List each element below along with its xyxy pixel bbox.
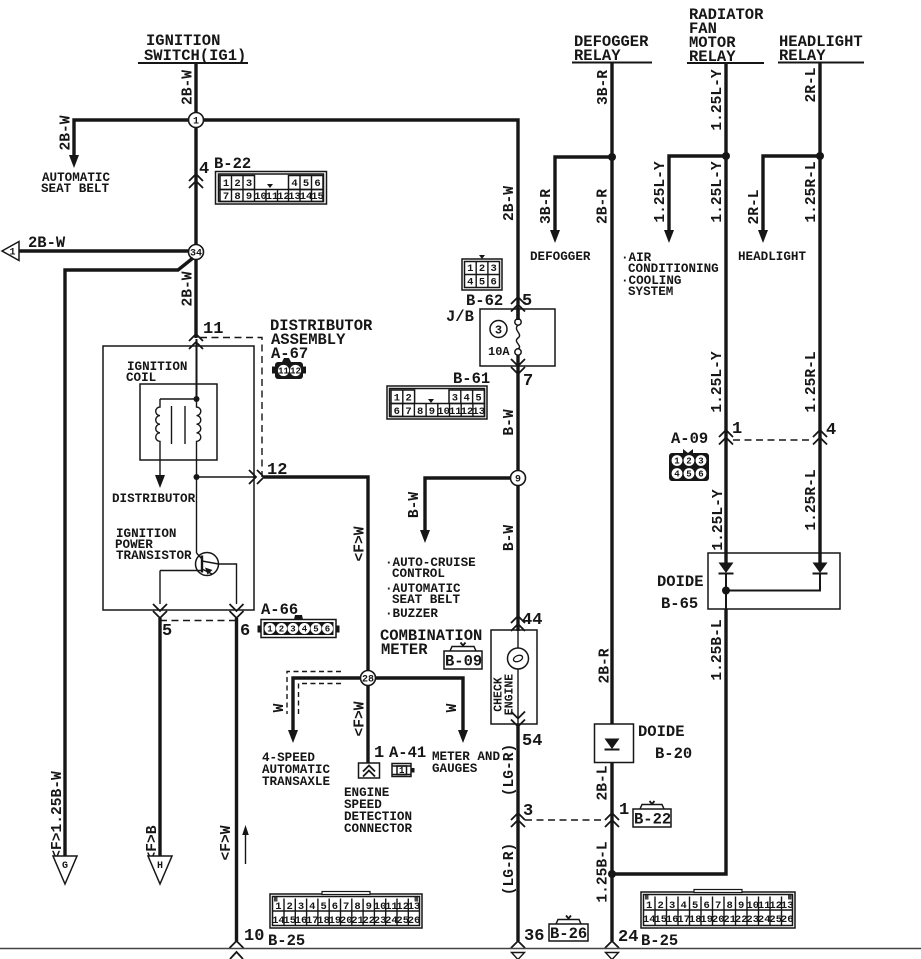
text IGNITION POWER TRANSISTOR — [115, 527, 192, 563]
engine speed detection connector terminal — [359, 763, 380, 778]
svg-text:7: 7 — [343, 901, 349, 913]
wire node 34 down-left to G line — [65, 258, 193, 856]
chevrons pin 5 — [153, 604, 167, 618]
svg-text:4: 4 — [291, 178, 297, 190]
connector B-22 symbol — [633, 801, 671, 829]
direction arrow up — [242, 825, 249, 864]
svg-text:1: 1 — [9, 248, 15, 259]
text AUTO-CRUISE CONTROL AUTOMATIC SEAT BELT BUZZER — [385, 556, 476, 621]
svg-text:2B-W: 2B-W — [502, 186, 518, 221]
svg-text:9: 9 — [246, 191, 252, 203]
wire 12 out of assembly — [197, 476, 257, 478]
wire defogger relay down — [610, 63, 613, 724]
svg-text:B-22: B-22 — [214, 155, 251, 173]
fuse 3 circled — [490, 321, 507, 338]
wire radiator fan relay down — [724, 63, 727, 553]
svg-text:1.25L-Y: 1.25L-Y — [711, 489, 727, 551]
connector B-61 — [387, 386, 487, 419]
node 9 — [511, 471, 526, 486]
chevrons pin 4 A-09 — [813, 430, 827, 445]
svg-text:28: 28 — [362, 675, 374, 686]
connector A-67 icon — [272, 358, 306, 379]
wire inside meter box — [517, 630, 519, 648]
svg-text:B-22: B-22 — [634, 811, 671, 829]
svg-text:3: 3 — [452, 393, 458, 405]
wire node 28 down to engine speed connector — [366, 685, 369, 763]
svg-text:SYSTEM: SYSTEM — [628, 285, 673, 299]
combination meter box — [491, 630, 537, 724]
text AIR CONDITIONING COOLING SYSTEM — [621, 251, 719, 299]
node 1 — [189, 113, 204, 128]
svg-text:W: W — [445, 703, 461, 712]
wire 2B-W from ignition switch down — [194, 63, 197, 338]
svg-text:B-26: B-26 — [550, 925, 587, 943]
header RADIATOR FAN MOTOR RELAY — [687, 6, 764, 66]
svg-text:1.25R-L: 1.25R-L — [804, 351, 820, 412]
svg-text:5: 5 — [320, 901, 326, 913]
svg-text:26: 26 — [408, 915, 421, 927]
svg-text:9: 9 — [366, 901, 372, 913]
chevrons pin 6 — [230, 604, 244, 618]
svg-text:B-W: B-W — [407, 492, 423, 519]
svg-text:DISTRIBUTOR: DISTRIBUTOR — [112, 492, 196, 506]
svg-text:4: 4 — [826, 421, 836, 440]
svg-text:3: 3 — [298, 901, 304, 913]
node 28 — [361, 671, 376, 686]
svg-text:1: 1 — [223, 178, 229, 190]
svg-text:6: 6 — [704, 900, 710, 912]
svg-text:1: 1 — [275, 901, 281, 913]
bottom mark up chevron x237 — [230, 952, 243, 959]
svg-text:9: 9 — [515, 475, 521, 486]
junction dot headlight — [816, 152, 824, 160]
svg-text:9: 9 — [738, 900, 744, 912]
svg-text:6: 6 — [332, 901, 338, 913]
svg-text:1.25R-L: 1.25R-L — [804, 469, 820, 530]
chevrons pin 54 — [511, 712, 525, 727]
svg-text:HEADLIGHT: HEADLIGHT — [738, 250, 806, 264]
connector B-25 right — [641, 890, 795, 929]
text IGNITION COIL — [126, 360, 187, 385]
svg-text:8: 8 — [234, 191, 240, 203]
svg-text:2: 2 — [686, 457, 691, 467]
arrow down air conditioning — [664, 230, 674, 243]
chevrons pin 1 B-22 — [605, 813, 619, 827]
wire 5 down to H — [158, 618, 161, 856]
core lines — [171, 406, 173, 444]
svg-text:2: 2 — [234, 178, 240, 190]
transistor Q ignition power — [196, 553, 219, 576]
svg-text:G: G — [62, 861, 68, 872]
svg-text:·BUZZER: ·BUZZER — [385, 607, 438, 621]
svg-text:10A: 10A — [488, 345, 510, 359]
header HEADLIGHT RELAY — [778, 33, 864, 65]
text AUTOMATIC SEAT BELT — [41, 171, 110, 196]
header IGNITION SWITCH(IG1) — [138, 32, 248, 65]
svg-text:2R-L: 2R-L — [747, 189, 763, 224]
diode box B-65 — [708, 553, 840, 609]
coil inner box — [140, 384, 217, 460]
wire headlight relay down — [818, 63, 821, 553]
bottom mark triangle x612 — [606, 953, 619, 959]
svg-text:(LG-R): (LG-R) — [502, 744, 518, 797]
dashed link A-09 — [733, 439, 813, 441]
svg-text:5: 5 — [162, 622, 172, 641]
svg-text:TRANSAXLE: TRANSAXLE — [262, 775, 330, 789]
svg-text:4: 4 — [199, 160, 209, 179]
svg-text:9: 9 — [429, 406, 435, 418]
connector B-26 symbol — [549, 916, 588, 944]
svg-text:2R-L: 2R-L — [804, 67, 820, 102]
arrow down to 4-speed — [288, 730, 298, 743]
svg-text:2B-L: 2B-L — [596, 765, 612, 800]
chevron bottom x518 — [511, 941, 525, 948]
svg-text:7: 7 — [223, 191, 229, 203]
connector B-62 — [462, 255, 502, 290]
svg-text:2: 2 — [658, 900, 664, 912]
svg-text:4: 4 — [302, 625, 308, 635]
diode left in B-65 — [719, 553, 734, 609]
svg-text:6: 6 — [394, 406, 400, 418]
text ENGINE SPEED DETECTION CONNECTOR — [344, 786, 412, 836]
svg-text:5: 5 — [475, 393, 481, 405]
svg-text:1: 1 — [394, 393, 400, 405]
diode right in B-65 — [726, 553, 828, 591]
svg-text:B-25: B-25 — [641, 932, 678, 950]
text DISTRIBUTOR ASSEMBLY — [270, 317, 373, 363]
svg-text:13: 13 — [472, 406, 485, 418]
wire triangle1 to node 34 — [19, 249, 189, 252]
wire node 28 left branch — [293, 678, 361, 732]
svg-text:1: 1 — [674, 457, 680, 467]
connector B-09 symbol — [444, 643, 482, 671]
svg-text:6: 6 — [314, 178, 320, 190]
svg-text:3: 3 — [246, 178, 252, 190]
svg-text:J/B: J/B — [446, 308, 474, 326]
svg-text:CONTROL: CONTROL — [392, 567, 445, 581]
terminal triangle G — [53, 856, 77, 884]
svg-text:1.25B-L: 1.25B-L — [710, 619, 726, 680]
svg-text:1.25L-Y: 1.25L-Y — [710, 69, 726, 131]
arrow down defogger — [550, 230, 560, 243]
svg-text:6: 6 — [325, 625, 330, 635]
text 4-SPEED AUTOMATIC TRANSAXLE — [262, 751, 330, 789]
chevrons pin 12 — [249, 470, 264, 484]
chevrons pin 4 — [189, 174, 203, 188]
text METER AND GAUGES — [432, 750, 500, 776]
wire branch to defogger — [555, 157, 612, 232]
winding right — [197, 399, 201, 477]
svg-text:5: 5 — [313, 625, 318, 635]
dashed harness conduit — [287, 672, 341, 715]
svg-text:W: W — [272, 703, 288, 712]
svg-text:1.25L-Y: 1.25L-Y — [653, 161, 669, 223]
wire 1.25B-L down from B-65 — [612, 609, 726, 874]
junction block J/B box — [480, 309, 555, 366]
svg-text:3B-R: 3B-R — [596, 70, 612, 105]
svg-text:SEAT BELT: SEAT BELT — [392, 593, 460, 607]
connector B-25 left — [270, 892, 422, 929]
svg-text:5: 5 — [479, 277, 485, 289]
svg-text:(LG-R): (LG-R) — [502, 843, 518, 896]
svg-text:ENGINE: ENGINE — [504, 674, 517, 716]
text COMBINATION METER — [380, 627, 482, 659]
connector A-09 icon — [669, 449, 709, 481]
wire 12 to node 28 column — [264, 477, 368, 672]
svg-text:B-20: B-20 — [655, 745, 692, 763]
svg-text:36: 36 — [524, 927, 544, 946]
svg-text:7: 7 — [523, 372, 533, 391]
bottom mark triangle x518 — [512, 953, 525, 959]
svg-text:3: 3 — [290, 625, 295, 635]
diode B-20 box — [595, 724, 634, 763]
check engine lamp — [508, 648, 529, 669]
svg-text:2B-R: 2B-R — [598, 648, 614, 683]
svg-text:TRANSISTOR: TRANSISTOR — [116, 549, 192, 563]
chevrons pin 44 — [511, 616, 525, 631]
ignition coil outer box — [103, 346, 254, 610]
svg-text:2B-W: 2B-W — [59, 115, 75, 150]
wire branch to air conditioning — [669, 156, 726, 232]
svg-text:4: 4 — [467, 277, 473, 289]
svg-text:2B-W: 2B-W — [181, 70, 197, 105]
svg-text:26: 26 — [781, 914, 794, 926]
svg-text:3: 3 — [495, 324, 502, 338]
chevron bottom x237 — [230, 941, 244, 948]
svg-text:2: 2 — [479, 263, 485, 275]
svg-text:13: 13 — [781, 900, 794, 912]
svg-text:1.25R-L: 1.25R-L — [804, 161, 820, 222]
svg-text:7: 7 — [715, 900, 721, 912]
svg-text:1: 1 — [732, 420, 742, 439]
svg-text:10: 10 — [244, 927, 264, 946]
svg-text:11: 11 — [203, 320, 223, 339]
svg-text:5: 5 — [686, 470, 691, 480]
svg-text:6: 6 — [698, 470, 703, 480]
wire 2B-L down — [610, 763, 613, 942]
svg-text:H: H — [157, 861, 163, 872]
svg-text:DOIDE: DOIDE — [657, 573, 704, 591]
junction dot in B-65 — [722, 587, 730, 595]
text DOIDE B-65 — [657, 573, 704, 613]
svg-text:5: 5 — [303, 178, 309, 190]
connector A-66 — [258, 615, 340, 638]
dashed distributor assembly boundary — [200, 338, 262, 478]
arrow down — [420, 530, 430, 543]
connector B-22 — [216, 172, 327, 205]
svg-text:B-65: B-65 — [661, 595, 698, 613]
svg-text:<F>W: <F>W — [353, 701, 369, 736]
wire branch to headlight — [763, 156, 820, 232]
svg-text:1: 1 — [619, 801, 629, 820]
svg-text:2: 2 — [406, 393, 412, 405]
node 34 — [189, 245, 204, 260]
svg-text:METER: METER — [381, 641, 428, 659]
arrow down — [69, 155, 79, 168]
terminal triangle H — [148, 856, 172, 884]
svg-text:12: 12 — [290, 367, 301, 377]
wire node 9 branch left — [425, 478, 511, 532]
svg-text:1: 1 — [193, 117, 199, 128]
chevron bottom x612 — [605, 941, 619, 948]
coil secondary down to transistor — [196, 477, 198, 553]
svg-text:<F>1.25B-W: <F>1.25B-W — [50, 771, 66, 859]
svg-text:<F>W: <F>W — [353, 526, 369, 561]
svg-text:2B-R: 2B-R — [596, 189, 612, 224]
svg-text:13: 13 — [408, 901, 421, 913]
svg-text:CONNECTOR: CONNECTOR — [344, 822, 412, 836]
transistor base wire — [160, 570, 202, 572]
svg-text:1: 1 — [267, 625, 273, 635]
svg-text:1.25L-Y: 1.25L-Y — [710, 161, 726, 223]
svg-text:<F>B: <F>B — [145, 825, 161, 860]
svg-text:5: 5 — [692, 900, 698, 912]
chevrons pin 11 — [189, 334, 203, 349]
svg-text:15: 15 — [311, 191, 324, 203]
wire node 28 right branch — [375, 678, 463, 732]
svg-text:3B-R: 3B-R — [539, 189, 555, 224]
svg-text:54: 54 — [522, 732, 542, 751]
chevrons pin 7 — [511, 359, 525, 374]
svg-text:DOIDE: DOIDE — [638, 723, 685, 741]
bottom border line — [0, 948, 921, 950]
svg-text:11: 11 — [278, 367, 289, 377]
chevrons pin 1 A-09 — [719, 430, 733, 445]
svg-text:1: 1 — [374, 744, 384, 763]
svg-text:44: 44 — [522, 611, 542, 630]
wire LG-R down — [516, 724, 519, 941]
arrow down to meter and gauges — [458, 730, 468, 743]
svg-text:1: 1 — [646, 900, 652, 912]
header DEFOGGER RELAY — [572, 33, 652, 65]
svg-text:A-66: A-66 — [261, 601, 298, 619]
junction dot defogger — [608, 153, 616, 161]
junction dot 1.25B-L — [608, 870, 616, 878]
svg-text:B-W: B-W — [502, 525, 518, 552]
connector A-41 icon — [392, 764, 415, 777]
svg-text:8: 8 — [727, 900, 733, 912]
svg-text:1: 1 — [399, 766, 405, 776]
svg-text:GAUGES: GAUGES — [432, 762, 478, 776]
svg-text:8: 8 — [417, 406, 423, 418]
transistor base down — [159, 571, 161, 605]
wire into coil — [196, 339, 198, 399]
svg-text:B-25: B-25 — [268, 932, 305, 950]
svg-text:B-W: B-W — [502, 409, 518, 436]
chevrons pin 3 — [511, 813, 525, 827]
svg-text:2: 2 — [279, 625, 284, 635]
svg-text:DEFOGGER: DEFOGGER — [530, 250, 591, 264]
svg-text:4: 4 — [309, 901, 315, 913]
svg-text:1.25L-Y: 1.25L-Y — [710, 351, 726, 413]
transistor emitter wire — [219, 564, 237, 604]
distributor arrow — [155, 475, 165, 488]
svg-text:4: 4 — [464, 393, 470, 405]
svg-text:3: 3 — [523, 802, 533, 821]
svg-text:2B-W: 2B-W — [181, 271, 197, 306]
text CHECK ENGINE rotated — [493, 674, 517, 716]
terminal triangle 1 pointing left — [2, 242, 19, 261]
svg-text:<F>W: <F>W — [219, 825, 235, 860]
svg-text:3: 3 — [698, 457, 703, 467]
junction dot coil out — [194, 474, 200, 480]
svg-text:2: 2 — [287, 901, 293, 913]
svg-text:3: 3 — [669, 900, 675, 912]
wire node1 right to J/B — [203, 120, 518, 320]
fuse symbol — [515, 309, 521, 366]
svg-text:COIL: COIL — [126, 371, 156, 385]
svg-text:1: 1 — [467, 263, 473, 275]
wire 6 down to bottom — [235, 618, 238, 941]
svg-text:3: 3 — [491, 263, 497, 275]
svg-text:A-41: A-41 — [389, 744, 426, 762]
arrow down headlight — [758, 230, 768, 243]
wire lamp to box bottom — [517, 669, 519, 724]
text DOIDE B-20 — [638, 723, 692, 763]
svg-text:4: 4 — [674, 470, 680, 480]
coil primary feed — [160, 398, 197, 400]
dashed link 3 to 1 — [525, 819, 605, 821]
svg-text:SEAT BELT: SEAT BELT — [41, 182, 109, 196]
svg-text:7: 7 — [405, 406, 411, 418]
svg-text:6: 6 — [240, 622, 250, 641]
dashed line between pins 5 and 6 — [160, 620, 237, 622]
junction dot radiator — [722, 152, 730, 160]
wire branch to automatic seat belt — [74, 120, 189, 157]
wire B-W down to node 9 — [516, 366, 519, 631]
svg-text:A-09: A-09 — [671, 430, 708, 448]
svg-text:8: 8 — [354, 901, 360, 913]
winding left — [156, 399, 160, 476]
svg-text:24: 24 — [618, 928, 638, 947]
svg-text:B-09: B-09 — [445, 653, 482, 671]
svg-text:6: 6 — [491, 277, 497, 289]
chevrons pin 5 — [511, 297, 525, 312]
junction dot coil top — [194, 396, 200, 402]
svg-text:4: 4 — [681, 900, 687, 912]
